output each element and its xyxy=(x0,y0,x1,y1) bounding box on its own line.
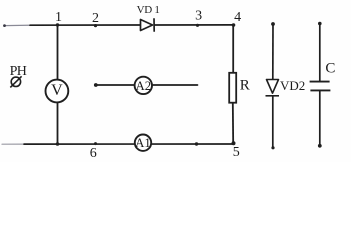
svg-text:VD2: VD2 xyxy=(280,78,305,93)
svg-text:A1: A1 xyxy=(135,136,151,150)
svg-text:2: 2 xyxy=(92,11,99,26)
wire: left branch node 1 to bottom rail xyxy=(57,25,59,144)
wire: middle measuring branch xyxy=(96,84,198,86)
node 1 xyxy=(56,23,59,26)
wire: capacitor branch vertical xyxy=(319,24,321,146)
diode VD1 xyxy=(141,18,155,32)
node 2 xyxy=(94,24,97,27)
svg-text:6: 6 xyxy=(90,146,97,161)
node 6 xyxy=(94,142,97,145)
wire: bottom rail xyxy=(2,143,234,145)
wire: VD2 branch vertical xyxy=(272,24,274,149)
node 3 xyxy=(196,24,199,27)
phase symbol (circle with slash) xyxy=(10,76,21,87)
svg-text:VD 1: VD 1 xyxy=(137,4,160,16)
node: VD2 branch bottom terminal xyxy=(271,146,274,149)
svg-text:PH: PH xyxy=(10,64,27,79)
svg-text:V: V xyxy=(51,82,63,99)
node 4 corner xyxy=(232,23,236,27)
svg-text:R: R xyxy=(240,78,250,94)
capacitor C plates xyxy=(310,82,331,91)
junction dot on bottom rail at node below 3 xyxy=(195,142,198,145)
junction at node 6 rail xyxy=(56,142,60,146)
diode VD2 xyxy=(266,80,280,96)
node: left input terminal dot xyxy=(3,24,6,27)
wire: top rail from left terminal to node 4 xyxy=(5,24,234,27)
svg-text:4: 4 xyxy=(234,10,241,25)
wire: right rail (node 4 down to node 5) xyxy=(232,25,234,144)
svg-text:3: 3 xyxy=(195,9,202,24)
svg-text:1: 1 xyxy=(55,10,62,25)
node: capacitor branch bottom terminal xyxy=(318,144,322,148)
node: middle branch left terminal dot xyxy=(94,83,98,87)
resistor R xyxy=(229,73,236,103)
node: VD2 branch top terminal xyxy=(271,22,275,26)
svg-text:A2: A2 xyxy=(135,79,151,93)
svg-text:5: 5 xyxy=(233,145,240,160)
svg-text:C: C xyxy=(325,61,335,77)
node 5 corner xyxy=(232,141,236,145)
voltmeter V xyxy=(46,80,69,103)
ammeter A1 xyxy=(135,135,151,151)
ammeter A2 xyxy=(135,77,152,94)
node: capacitor branch top terminal xyxy=(318,22,322,26)
